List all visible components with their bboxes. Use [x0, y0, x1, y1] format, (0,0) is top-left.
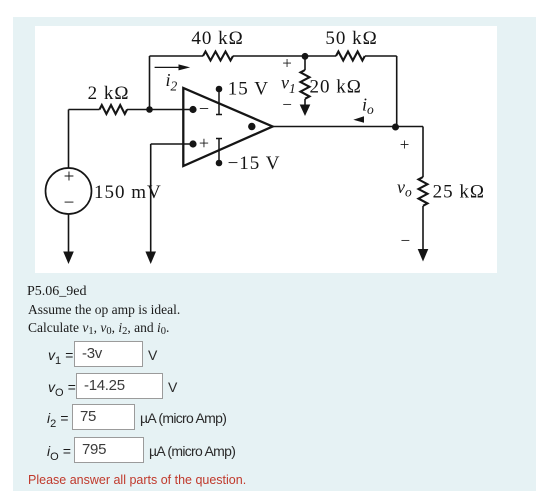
svg-text:50 kΩ: 50 kΩ [325, 28, 377, 49]
svg-text:150 mV: 150 mV [94, 182, 162, 203]
svg-text:+: + [282, 53, 293, 72]
svg-text:−: − [199, 99, 210, 119]
svg-text:−: − [64, 192, 76, 213]
svg-text:v1: v1 [281, 73, 296, 97]
svg-text:vo: vo [397, 177, 412, 200]
svg-text:40 kΩ: 40 kΩ [191, 28, 243, 49]
svg-text:−15 V: −15 V [228, 153, 281, 174]
svg-text:2 kΩ: 2 kΩ [88, 83, 130, 104]
svg-text:−: − [282, 95, 293, 114]
svg-text:i2: i2 [166, 70, 178, 94]
svg-text:15 V: 15 V [228, 79, 269, 100]
svg-text:−: − [401, 231, 412, 250]
svg-text:+: + [64, 166, 76, 187]
svg-text:+: + [199, 133, 210, 153]
svg-text:20 kΩ: 20 kΩ [310, 76, 362, 97]
svg-text:25 kΩ: 25 kΩ [433, 181, 485, 202]
svg-text:io: io [362, 95, 374, 118]
svg-text:+: + [400, 135, 411, 154]
